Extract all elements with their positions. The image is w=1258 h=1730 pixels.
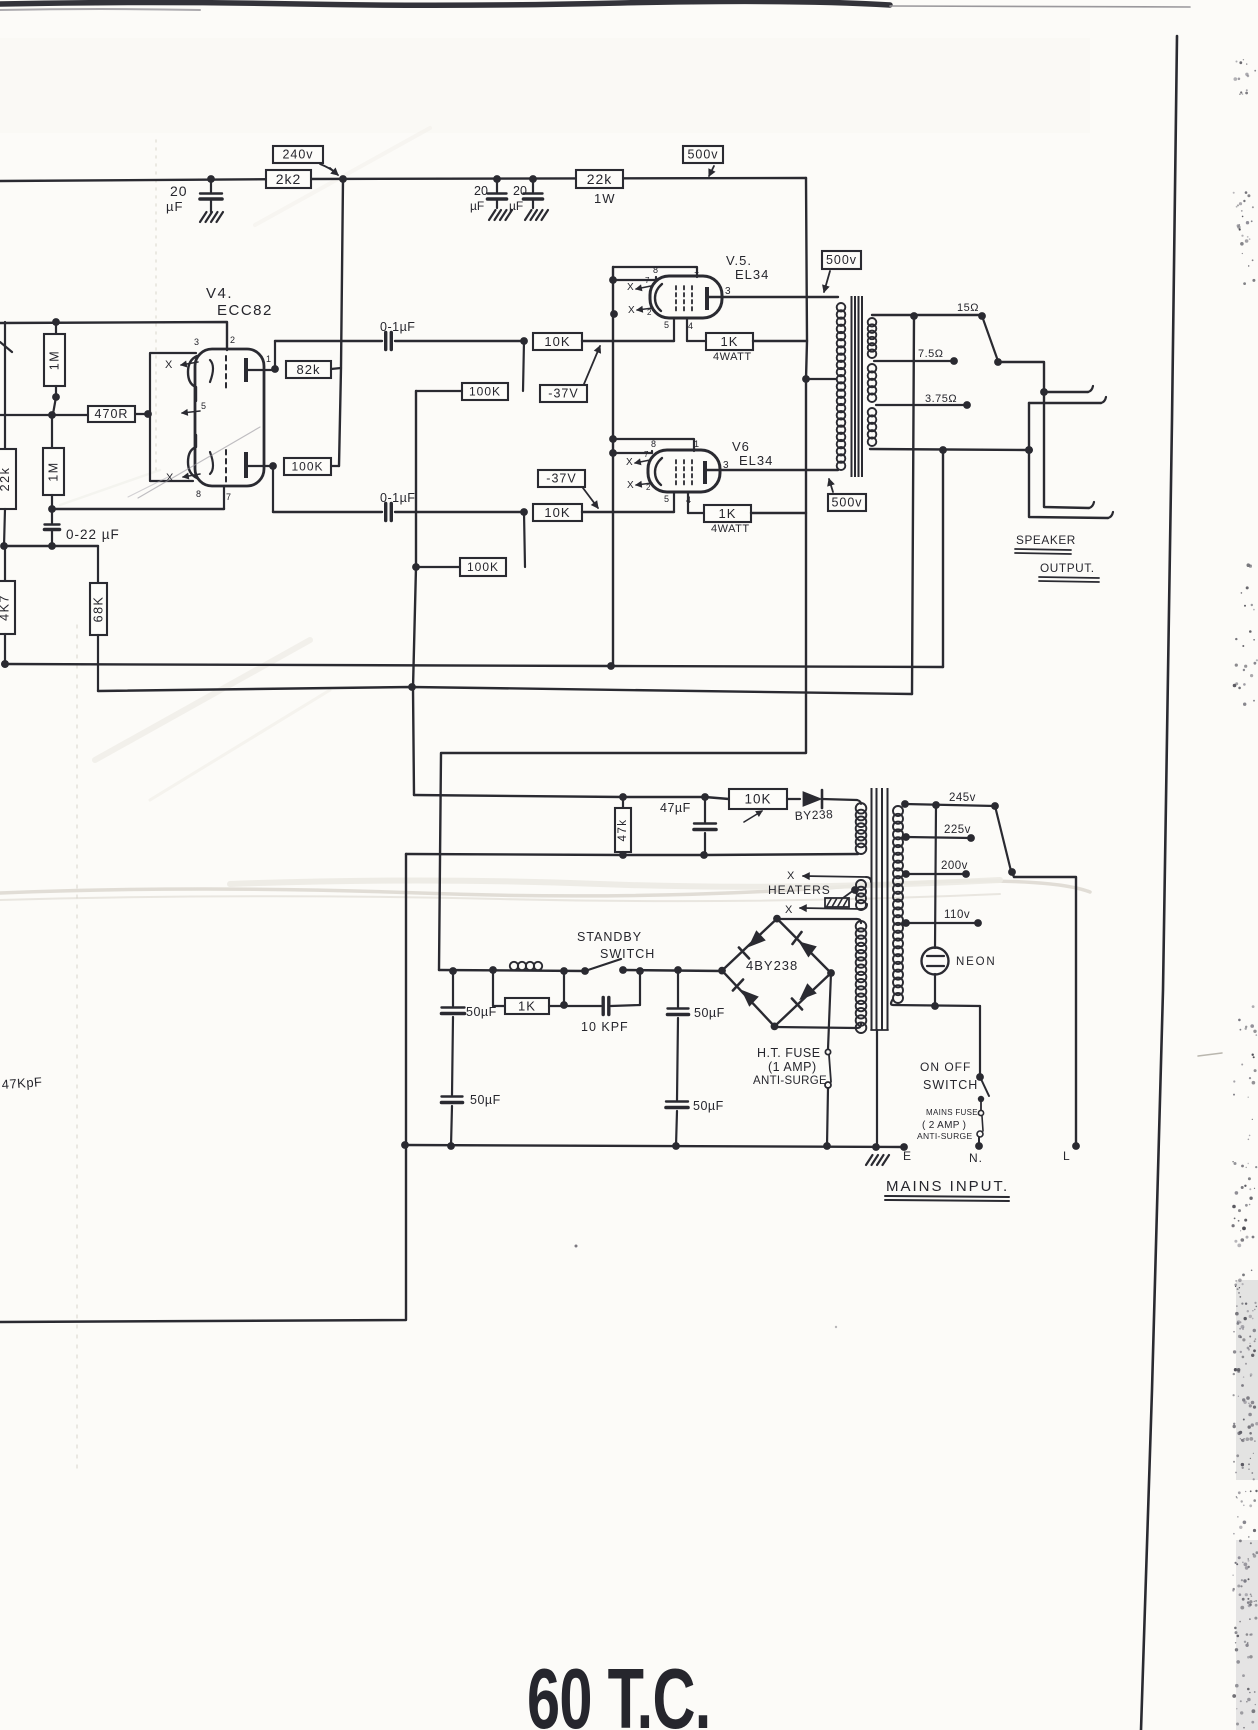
svg-text:47k: 47k [617,818,629,841]
svg-text:1: 1 [694,265,700,275]
svg-text:60 T.C.: 60 T.C. [527,1652,711,1730]
svg-text:2: 2 [230,335,236,345]
svg-text:50µF: 50µF [466,1005,497,1019]
svg-text:EL34: EL34 [739,453,773,468]
svg-text:0-22 µF: 0-22 µF [66,527,120,542]
svg-text:20: 20 [474,184,488,198]
svg-text:1: 1 [694,439,700,449]
svg-text:5: 5 [664,320,670,330]
svg-text:EL34: EL34 [735,267,769,282]
svg-text:470R: 470R [95,407,129,421]
svg-text:X: X [626,457,634,468]
svg-text:4: 4 [688,321,694,331]
svg-text:200v: 200v [941,860,968,872]
svg-text:50µF: 50µF [470,1093,501,1107]
svg-text:3: 3 [194,337,200,347]
svg-text:50µF: 50µF [693,1099,724,1113]
svg-text:V6: V6 [732,439,750,454]
svg-text:ANTI-SURGE: ANTI-SURGE [753,1075,827,1087]
svg-text:SPEAKER: SPEAKER [1016,533,1076,547]
svg-text:0-1µF: 0-1µF [380,491,415,505]
svg-text:100K: 100K [291,460,323,474]
svg-text:X: X [785,904,793,916]
svg-text:N.: N. [969,1151,983,1165]
svg-text:8: 8 [651,439,657,449]
svg-text:E: E [903,1149,912,1163]
svg-text:µF: µF [509,199,523,213]
svg-text:110v: 110v [944,909,970,921]
svg-text:2: 2 [646,483,651,492]
svg-text:(1 AMP): (1 AMP) [768,1060,817,1074]
svg-text:ANTI-SURGE: ANTI-SURGE [917,1131,972,1141]
svg-text:100K: 100K [467,560,499,574]
svg-text:V.5.: V.5. [726,253,752,268]
svg-text:NEON: NEON [956,956,996,968]
svg-text:SWITCH: SWITCH [923,1078,978,1092]
svg-text:L: L [1063,1149,1071,1163]
svg-text:X: X [627,480,635,491]
svg-text:22k: 22k [587,171,613,187]
svg-text:1M: 1M [47,461,61,481]
svg-text:1K: 1K [518,999,536,1014]
svg-text:1: 1 [266,354,272,364]
svg-text:20: 20 [170,183,188,199]
svg-text:47KpF: 47KpF [1,1074,43,1092]
svg-text:7: 7 [645,276,650,285]
svg-text:BY238: BY238 [794,807,833,823]
svg-text:10 KPF: 10 KPF [581,1020,629,1034]
svg-text:8: 8 [196,489,202,499]
svg-text:10K: 10K [544,334,570,349]
svg-text:225v: 225v [944,824,971,836]
svg-text:1M: 1M [48,350,62,370]
svg-text:-37V: -37V [548,387,578,401]
svg-text:7: 7 [226,492,232,502]
svg-text:10K: 10K [544,505,570,520]
svg-text:MAINS INPUT.: MAINS INPUT. [886,1178,1009,1195]
svg-text:7: 7 [644,450,649,459]
svg-text:68K: 68K [92,596,106,623]
svg-text:X: X [165,359,173,371]
svg-text:5: 5 [664,494,670,504]
svg-text:10K: 10K [744,792,771,807]
svg-text:50µF: 50µF [694,1006,725,1020]
svg-text:8: 8 [653,265,659,275]
svg-text:500v: 500v [687,148,718,162]
svg-text:MAINS FUSE: MAINS FUSE [926,1108,978,1117]
svg-text:3.75Ω: 3.75Ω [925,393,957,405]
svg-text:( 2 AMP ): ( 2 AMP ) [922,1120,966,1131]
svg-text:4WATT: 4WATT [711,523,750,535]
svg-text:20: 20 [513,184,527,198]
svg-text:1W: 1W [594,191,616,206]
svg-text:2: 2 [647,308,652,317]
svg-text:-37V: -37V [546,472,576,486]
svg-text:47µF: 47µF [660,801,691,815]
svg-text:X: X [628,305,636,316]
svg-text:500v: 500v [831,496,862,510]
svg-text:STANDBY: STANDBY [577,930,642,944]
svg-text:V4.: V4. [206,285,233,302]
svg-text:22k: 22k [0,467,12,492]
svg-text:500v: 500v [826,253,857,267]
svg-text:ON OFF: ON OFF [920,1060,971,1074]
svg-text:1K: 1K [721,334,739,349]
svg-text:3: 3 [725,286,732,297]
svg-text:H.T. FUSE: H.T. FUSE [757,1046,821,1060]
svg-text:4BY238: 4BY238 [746,958,798,973]
svg-text:X: X [787,870,795,882]
svg-text:OUTPUT.: OUTPUT. [1040,561,1095,575]
svg-text:0-1µF: 0-1µF [380,320,415,334]
svg-text:2k2: 2k2 [276,171,302,187]
svg-text:245v: 245v [949,792,976,804]
svg-text:4WATT: 4WATT [713,351,752,363]
svg-text:15Ω: 15Ω [957,302,979,314]
svg-text:µF: µF [166,199,183,214]
svg-text:1K: 1K [719,506,737,521]
svg-text:ECC82: ECC82 [217,302,273,319]
svg-text:SWITCH: SWITCH [600,947,655,961]
svg-text:X: X [627,282,635,293]
svg-text:7.5Ω: 7.5Ω [918,348,944,360]
svg-text:82k: 82k [297,362,321,377]
svg-text:4K7: 4K7 [0,594,12,621]
svg-text:240v: 240v [282,148,313,162]
svg-text:HEATERS: HEATERS [768,883,831,897]
svg-text:µF: µF [470,199,484,213]
svg-text:3: 3 [723,460,730,471]
svg-text:100K: 100K [469,385,501,399]
svg-text:5: 5 [201,401,207,411]
